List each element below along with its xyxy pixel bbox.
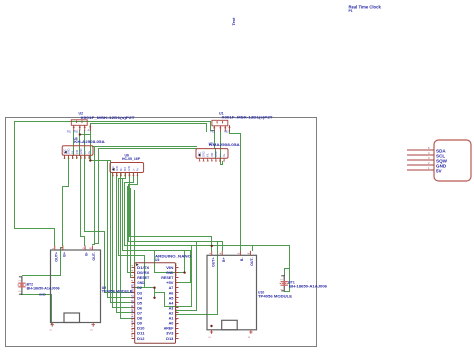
- svg-text:GND: GND: [215, 151, 218, 157]
- svg-text:B+: B+: [222, 257, 226, 262]
- svg-text:KH-A2508-05A: KH-A2508-05A: [74, 140, 105, 144]
- svg-text:INR: INR: [211, 153, 214, 158]
- svg-text:22: 22: [174, 303, 178, 306]
- svg-text:TP4056 MODULE: TP4056 MODULE: [102, 289, 133, 293]
- svg-text:P$1: P$1: [67, 130, 72, 133]
- svg-text:INR: INR: [124, 167, 127, 172]
- svg-text:ARDUINO_NANO: ARDUINO_NANO: [155, 253, 191, 258]
- svg-text:27: 27: [174, 278, 178, 281]
- svg-text:GND: GND: [68, 148, 71, 154]
- svg-text:29: 29: [174, 268, 178, 271]
- svg-text:17: 17: [174, 328, 178, 331]
- svg-text:P$1: P$1: [210, 131, 215, 134]
- svg-text:U3: U3: [155, 258, 159, 262]
- svg-text:R+: R+: [136, 167, 139, 171]
- svg-text:INR: INR: [76, 150, 79, 155]
- svg-text:21: 21: [174, 308, 178, 311]
- svg-text:15: 15: [130, 334, 134, 337]
- svg-text:-P: -P: [87, 130, 90, 133]
- svg-text:D12: D12: [137, 336, 145, 341]
- svg-text:Text: Text: [231, 17, 236, 26]
- svg-text:OUT-: OUT-: [92, 251, 96, 260]
- svg-text:HC-05_16P: HC-05_16P: [122, 157, 141, 161]
- svg-text:19: 19: [174, 318, 178, 321]
- svg-text:GND: GND: [39, 292, 47, 296]
- svg-text:BUZ: BUZ: [131, 283, 134, 288]
- svg-text:R+: R+: [88, 150, 91, 154]
- svg-text:TX: TX: [131, 315, 134, 318]
- svg-text:X001F_MSK-12D1(s)P2T: X001F_MSK-12D1(s)P2T: [222, 116, 274, 120]
- svg-text:RX: RX: [131, 320, 134, 324]
- svg-text:30: 30: [174, 263, 178, 266]
- svg-text:X001F_MSK-12D1(s)P2T: X001F_MSK-12D1(s)P2T: [81, 116, 136, 120]
- svg-text:GND: GND: [116, 166, 119, 172]
- svg-text:INL: INL: [207, 153, 210, 158]
- svg-text:GND: GND: [203, 151, 206, 157]
- svg-text:KMA2508-05A: KMA2508-05A: [209, 143, 240, 147]
- svg-text:R+: R+: [223, 153, 226, 157]
- svg-text:INL: INL: [120, 167, 123, 172]
- svg-text:D13: D13: [166, 336, 174, 341]
- svg-text:14: 14: [130, 328, 134, 331]
- svg-text:28: 28: [174, 273, 178, 276]
- svg-text:GND: GND: [128, 166, 131, 172]
- svg-text:5V: 5V: [436, 168, 443, 173]
- svg-text:B+: B+: [63, 252, 67, 257]
- svg-text:26: 26: [174, 283, 178, 286]
- svg-text:INL: INL: [72, 150, 75, 155]
- svg-text:BH-18650-A1AJ006: BH-18650-A1AJ006: [27, 287, 60, 291]
- svg-text:BH-18650-A1AJ006: BH-18650-A1AJ006: [289, 285, 327, 289]
- svg-text:OUT+: OUT+: [211, 257, 215, 267]
- svg-text:Real Time Clock: Real Time Clock: [349, 5, 382, 10]
- svg-text:24: 24: [174, 293, 178, 296]
- svg-text:16: 16: [174, 334, 178, 337]
- svg-text:TP4056 MODULE: TP4056 MODULE: [258, 295, 293, 299]
- svg-text:18: 18: [174, 323, 178, 326]
- svg-text:IN2: IN2: [131, 299, 134, 303]
- svg-text:P$3: P$3: [224, 131, 229, 134]
- svg-text:23: 23: [174, 298, 178, 301]
- svg-text:P$2: P$2: [74, 130, 79, 133]
- svg-text:OUT+: OUT+: [54, 252, 58, 262]
- svg-text:OUT-: OUT-: [250, 257, 254, 266]
- svg-text:EN: EN: [131, 305, 134, 309]
- svg-text:IN1: IN1: [131, 294, 134, 298]
- svg-text:25: 25: [174, 288, 178, 291]
- svg-text:20: 20: [174, 313, 178, 316]
- svg-text:GND: GND: [80, 148, 83, 154]
- svg-text:P1: P1: [349, 9, 353, 13]
